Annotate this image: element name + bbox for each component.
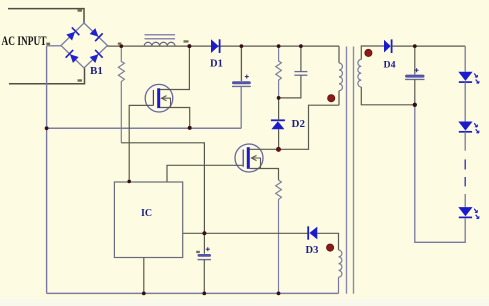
net tick IC right bbox=[196, 251, 200, 253]
bridge rectifier B1 diamond bbox=[61, 23, 108, 68]
bridge diode bottom-left bbox=[66, 50, 80, 64]
wire left vertical rail bbox=[46, 46, 48, 294]
transformer primary winding bbox=[339, 63, 342, 91]
MOSFET Q1 drain lead bbox=[160, 46, 189, 89]
transformer core bbox=[347, 47, 354, 294]
junction dot rail IC pin bbox=[142, 292, 146, 296]
net tick bottom AC bbox=[78, 79, 83, 81]
wire C4 bottom to R3 bbox=[279, 75, 301, 98]
capacitor C3 plus bbox=[415, 68, 419, 72]
wire D2 top lead bbox=[278, 98, 280, 120]
capacitor C1 plus bbox=[245, 75, 249, 79]
junction dot C3 bottom bbox=[413, 103, 417, 107]
MOSFET Q2 bulk arrow bbox=[252, 155, 261, 168]
wire D2 bottom lead bbox=[278, 129, 280, 149]
junction dot C1 top bbox=[240, 44, 244, 48]
node dot secondary top bbox=[365, 49, 372, 56]
transformer secondary winding lead top bbox=[361, 46, 384, 59]
wire D4 cathode to LED rail bbox=[392, 45, 466, 47]
wire IC bottom pin bbox=[143, 258, 145, 294]
resistor R2 bbox=[276, 180, 282, 293]
wire secondary bottom lead bbox=[361, 87, 415, 105]
capacitor C2 lead top bbox=[203, 233, 205, 254]
svg-text:B1: B1 bbox=[90, 65, 103, 77]
junction dot left rail y128 bbox=[45, 126, 49, 130]
junction dot Q2 drain bbox=[276, 147, 281, 152]
wire AC line top bbox=[8, 9, 84, 24]
svg-text:D1: D1 bbox=[210, 58, 223, 69]
net tick top AC corner bbox=[78, 9, 83, 11]
transformer secondary winding bbox=[358, 59, 361, 87]
MOSFET Q1 circle bbox=[145, 84, 173, 112]
junction dot C2 top bbox=[202, 231, 206, 235]
svg-text:IC: IC bbox=[141, 208, 152, 219]
MOSFET Q2 gate bar bbox=[242, 150, 244, 167]
transformer aux winding bbox=[339, 250, 342, 277]
LED LED2 bbox=[458, 122, 479, 134]
inductor L1 choke bumps bbox=[144, 42, 175, 46]
junction dot IC pin1 bbox=[127, 180, 131, 184]
MOSFET Q1 gate lead bbox=[129, 105, 153, 182]
junction dot C4 top bbox=[299, 44, 303, 48]
inductor L1 core bars bbox=[145, 35, 176, 39]
capacitor C4 snubber bbox=[294, 72, 307, 76]
wire bottom rail bbox=[47, 292, 339, 294]
bottom margin band bbox=[0, 299, 489, 306]
wire LED string top bbox=[464, 46, 466, 72]
wire main top y46 bbox=[108, 45, 340, 47]
diode D4 bbox=[384, 39, 392, 53]
capacitor C2 plates bbox=[198, 254, 212, 257]
diode D2 bbox=[271, 120, 285, 129]
MOSFET Q1 bulk arrow bbox=[162, 96, 171, 108]
wire y128 rail bbox=[47, 127, 242, 129]
MOSFET Q2 drain lead bbox=[250, 105, 339, 149]
MOSFET Q2 circle bbox=[235, 144, 263, 172]
LED LED3 bbox=[458, 207, 479, 219]
node dot aux winding bbox=[327, 244, 334, 251]
MOSFET Q1 gate bar bbox=[152, 90, 154, 105]
svg-text:AC INPUT: AC INPUT bbox=[2, 34, 47, 48]
wire C1 bottom to y128 rail bbox=[240, 86, 242, 128]
net tick right vertex bbox=[118, 43, 122, 45]
diode D3 bbox=[308, 226, 317, 239]
wire C3 bottom lead bbox=[414, 79, 416, 104]
resistor R3 snubber bbox=[276, 46, 282, 98]
wire output return loop bbox=[415, 105, 465, 243]
bridge diode bottom-right bbox=[89, 50, 103, 64]
transformer primary winding lead bbox=[338, 46, 340, 63]
junction dot R3 top bbox=[277, 44, 281, 48]
wire dashed segment bbox=[464, 159, 466, 186]
wire aux winding bottom bbox=[338, 277, 340, 293]
diode D1 bbox=[211, 39, 220, 53]
MOSFET Q2 source lead bbox=[250, 169, 279, 181]
wire D3 to aux winding bbox=[317, 233, 338, 250]
bridge diode top-right bbox=[89, 27, 103, 41]
svg-text:D4: D4 bbox=[384, 59, 396, 70]
capacitor C3 top lead bbox=[414, 46, 416, 74]
junction dot rail C2 bbox=[202, 292, 206, 296]
wire R1 bottom to C2 node bbox=[121, 143, 204, 234]
wire AC line bottom bbox=[9, 68, 85, 84]
LED LED1 bbox=[458, 72, 479, 84]
wire bridge left vertex to left rail bbox=[47, 45, 61, 47]
capacitor C2 plus bbox=[206, 247, 210, 251]
net tick AC input bbox=[46, 43, 50, 45]
junction dot rail R2 bbox=[277, 292, 281, 296]
junction dot snubber bottom bbox=[277, 96, 281, 100]
wire C2 bottom lead bbox=[203, 260, 205, 294]
node dot primary bottom bbox=[328, 95, 335, 102]
wire primary bottom lead bbox=[338, 91, 340, 106]
wire LED3 top solid bbox=[464, 194, 466, 207]
bridge diode top-left bbox=[65, 27, 79, 41]
junction dot C3 top bbox=[413, 44, 417, 48]
wire IC right pin y233 bbox=[183, 232, 308, 234]
MOSFET Q2 channel bar bbox=[247, 147, 250, 169]
net tick drain node bbox=[184, 40, 189, 42]
capacitor C1 top lead bbox=[240, 46, 242, 81]
IC U1 box bbox=[114, 182, 182, 258]
resistor R1 startup bbox=[118, 46, 124, 143]
capacitor C3 plates bbox=[405, 75, 424, 78]
MOSFET Q2 gate lead bbox=[167, 165, 243, 182]
svg-text:D3: D3 bbox=[306, 245, 319, 256]
MOSFET Q1 source lead bbox=[160, 108, 190, 128]
svg-text:D2: D2 bbox=[292, 118, 306, 130]
wire LED1 to LED2 bbox=[464, 82, 466, 121]
MOSFET Q1 channel bar bbox=[157, 88, 160, 108]
junction dot Q1 source bbox=[188, 126, 192, 130]
wire LED2 down solid bbox=[464, 132, 466, 151]
wire C4 top lead bbox=[300, 46, 302, 72]
capacitor C1 plates bbox=[232, 81, 251, 84]
junction dot Q1 drain top bbox=[187, 44, 191, 48]
junction dot resistor R1 top bbox=[119, 44, 123, 48]
